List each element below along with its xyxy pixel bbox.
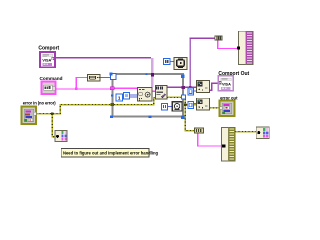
svg-text:1: 1 [118, 96, 121, 101]
svg-text:Comport: Comport [38, 46, 59, 52]
svg-text:Need to figure out and impleme: Need to figure out and implement error h… [63, 150, 158, 155]
svg-text:Command: Command [40, 76, 63, 81]
svg-text:VISA: VISA [222, 83, 231, 87]
svg-text:VISA: VISA [42, 59, 51, 63]
svg-text:error in (no error): error in (no error) [23, 101, 56, 106]
